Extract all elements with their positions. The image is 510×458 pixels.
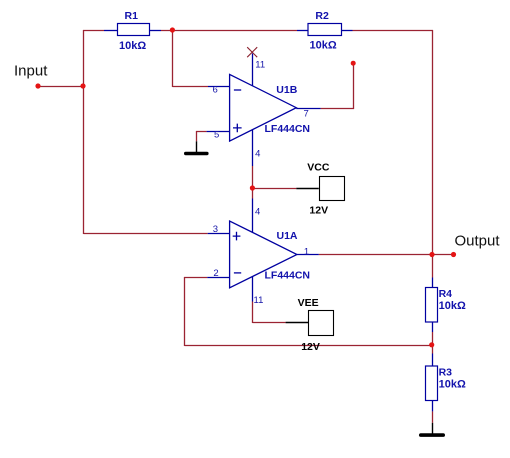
svg-text:10kΩ: 10kΩ bbox=[439, 300, 466, 312]
svg-text:1: 1 bbox=[304, 247, 309, 258]
svg-text:3: 3 bbox=[213, 224, 218, 235]
svg-text:5: 5 bbox=[214, 130, 219, 141]
svg-text:R2: R2 bbox=[315, 10, 329, 22]
svg-text:VCC: VCC bbox=[307, 162, 330, 174]
svg-text:4: 4 bbox=[255, 148, 260, 159]
svg-text:R3: R3 bbox=[439, 366, 453, 378]
svg-text:10kΩ: 10kΩ bbox=[439, 379, 466, 391]
svg-text:U1A: U1A bbox=[277, 230, 298, 242]
svg-text:LF444CN: LF444CN bbox=[265, 269, 311, 281]
svg-text:12V: 12V bbox=[309, 204, 328, 216]
svg-text:7: 7 bbox=[304, 108, 309, 119]
svg-text:U1B: U1B bbox=[276, 84, 297, 96]
svg-text:11: 11 bbox=[255, 59, 265, 70]
svg-text:Output: Output bbox=[455, 233, 501, 250]
svg-text:LF444CN: LF444CN bbox=[265, 123, 311, 135]
svg-text:12V: 12V bbox=[301, 341, 320, 353]
svg-text:R4: R4 bbox=[439, 288, 453, 300]
svg-text:Input: Input bbox=[14, 63, 48, 80]
svg-text:10kΩ: 10kΩ bbox=[310, 40, 337, 52]
svg-text:VEE: VEE bbox=[298, 297, 319, 309]
svg-text:2: 2 bbox=[213, 268, 218, 279]
svg-text:R1: R1 bbox=[125, 10, 139, 22]
svg-text:6: 6 bbox=[213, 85, 218, 96]
svg-text:10kΩ: 10kΩ bbox=[119, 40, 146, 52]
svg-text:4: 4 bbox=[255, 206, 260, 217]
svg-text:11: 11 bbox=[254, 295, 264, 306]
